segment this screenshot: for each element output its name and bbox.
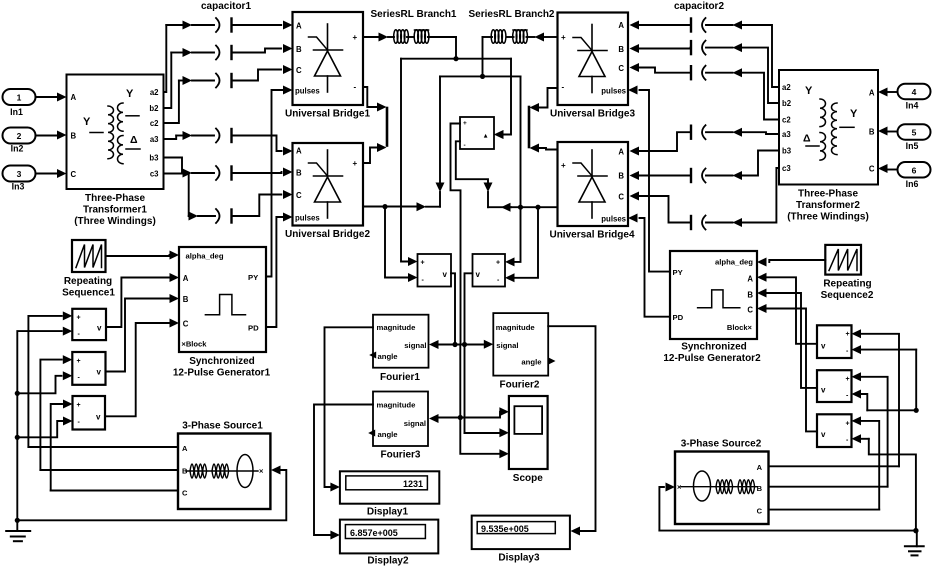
wire node to V2 minus bbox=[505, 205, 541, 283]
svg-text:C: C bbox=[183, 320, 189, 329]
capacitor C1 row c3 bbox=[189, 190, 293, 223]
wire bridge4 minus rail bbox=[488, 203, 558, 212]
label Synchronized 12-Pulse Generator2 bbox=[663, 342, 761, 365]
voltmeter Vbc1 block bbox=[72, 352, 105, 385]
svg-text:b2: b2 bbox=[782, 99, 792, 108]
svg-text:Universal Bridge3: Universal Bridge3 bbox=[550, 109, 635, 120]
wire Fourier3 magnitude out bbox=[314, 405, 373, 540]
svg-text:B: B bbox=[296, 169, 302, 178]
svg-text:In2: In2 bbox=[11, 144, 24, 154]
label Repeating Sequence1 bbox=[62, 276, 115, 299]
wire In3 to transformer C bbox=[36, 169, 67, 178]
capacitor C1 row b2 bbox=[171, 44, 292, 60]
wire In2 to transformer B bbox=[36, 131, 67, 140]
transformer T2 Three-Phase Transformer2 bbox=[779, 70, 878, 185]
wire rail left drop to V1+ bbox=[401, 59, 418, 266]
svg-text:angle: angle bbox=[378, 352, 399, 361]
wire RepSeq2 to alpha_deg bbox=[757, 258, 825, 267]
svg-text:PY: PY bbox=[673, 268, 683, 277]
svg-text:Display1: Display1 bbox=[367, 507, 409, 518]
wire Fourier2 magnitude out bbox=[548, 326, 595, 535]
wire bar bridge3-4 bbox=[528, 107, 531, 147]
svg-text:Y: Y bbox=[126, 88, 134, 100]
svg-text:b2: b2 bbox=[149, 104, 159, 113]
svg-text:In3: In3 bbox=[12, 182, 25, 192]
svg-text:B: B bbox=[747, 291, 753, 300]
wire Fourier1 magnitude out bbox=[325, 327, 374, 491]
svg-text:C: C bbox=[618, 193, 624, 202]
svg-text:Repeating: Repeating bbox=[823, 279, 871, 290]
label Fourier1 bbox=[380, 372, 420, 383]
wire bus B phase bbox=[40, 355, 178, 470]
svg-text:v: v bbox=[821, 386, 826, 395]
svg-text:SeriesRL Branch1: SeriesRL Branch1 bbox=[371, 9, 457, 20]
wire bridge2 minus to node bbox=[363, 202, 440, 211]
svg-text:+: + bbox=[463, 120, 467, 127]
label Synchronized 12-Pulse Generator1 bbox=[173, 356, 271, 379]
svg-text:Scope: Scope bbox=[513, 473, 543, 484]
op-amp U3 Universal Bridge3 bbox=[558, 13, 629, 106]
svg-text:B: B bbox=[869, 128, 875, 137]
wire bus neutral bbox=[17, 327, 72, 521]
label Display1 bbox=[367, 507, 409, 518]
svg-text:B: B bbox=[757, 484, 763, 493]
svg-text:Y: Y bbox=[850, 108, 858, 120]
wire block A out2 bbox=[456, 141, 493, 207]
op-amp U2 Universal Bridge2 bbox=[293, 143, 364, 226]
wire In6 to transformer C bbox=[878, 164, 898, 173]
svg-text:+: + bbox=[561, 161, 566, 170]
wire bus A phase bbox=[28, 311, 178, 447]
label Display2 bbox=[367, 556, 409, 567]
wire a3 riser bbox=[164, 136, 177, 140]
svg-text:C: C bbox=[757, 507, 763, 516]
wire c3 riser bbox=[164, 174, 189, 217]
svg-text:▴: ▴ bbox=[483, 133, 488, 140]
scope block bbox=[509, 396, 548, 469]
wire rail drop x520 to V2+ bbox=[505, 76, 521, 266]
wire node to V1 minus bbox=[385, 207, 418, 282]
svg-text:+: + bbox=[77, 315, 81, 322]
svg-text:+: + bbox=[846, 376, 850, 383]
wire to Fourier3 signal bbox=[429, 414, 460, 423]
svg-text:+: + bbox=[77, 358, 81, 365]
label Three-Phase Transformer1 bbox=[74, 193, 156, 227]
capacitor C2 row a3 bbox=[628, 125, 779, 155]
op-amp U4 Universal Bridge4 bbox=[558, 142, 629, 226]
svg-text:c3: c3 bbox=[782, 164, 791, 173]
wire to Scope in3 bbox=[460, 418, 509, 459]
ground G2 bbox=[905, 531, 924, 556]
source 3-Phase Source1 bbox=[178, 434, 270, 510]
wire In1 to transformer A bbox=[36, 93, 67, 102]
svg-text:c3: c3 bbox=[150, 170, 159, 179]
capacitor C2 row a2 bbox=[628, 18, 779, 87]
display block Display3 bbox=[472, 516, 570, 550]
wire bus A2 bbox=[769, 329, 900, 466]
block Fourier1 bbox=[373, 315, 429, 368]
input port In2 bbox=[3, 128, 36, 154]
source Repeating Sequence2 bbox=[825, 245, 861, 275]
wire c2 riser bbox=[164, 81, 179, 124]
voltmeter Vab2 block bbox=[817, 325, 852, 358]
svg-text:A: A bbox=[183, 274, 189, 283]
label Repeating Sequence2 bbox=[821, 279, 874, 302]
svg-text:Universal Bridge4: Universal Bridge4 bbox=[549, 230, 634, 241]
transformer T1 Three-Phase Transformer1 bbox=[67, 75, 164, 190]
svg-text:3: 3 bbox=[17, 169, 22, 179]
svg-text:PD: PD bbox=[673, 313, 684, 322]
capacitor C1 row b3 bbox=[182, 166, 293, 180]
input port In1 bbox=[3, 89, 36, 117]
voltmeter Vca2 block bbox=[817, 414, 852, 447]
svg-text:+: + bbox=[421, 260, 425, 267]
svg-text:v: v bbox=[821, 430, 826, 439]
block Fourier3 bbox=[373, 392, 428, 447]
svg-text:Sequence2: Sequence2 bbox=[821, 290, 874, 301]
wire RL1 drop and rail bbox=[401, 37, 511, 61]
wire PD2 to bridge4 pulses bbox=[628, 214, 670, 317]
wire to Scope in1 bbox=[460, 407, 509, 417]
svg-text:PD: PD bbox=[248, 324, 259, 333]
svg-text:Y: Y bbox=[83, 116, 91, 128]
wire Vca2 out to gen2 C bbox=[757, 304, 817, 431]
svg-text:2: 2 bbox=[17, 131, 22, 141]
wire RL2 drop and rail bbox=[440, 37, 521, 79]
svg-text:A: A bbox=[618, 21, 624, 30]
svg-text:B: B bbox=[618, 172, 624, 181]
voltmeter Vab1 block bbox=[72, 309, 106, 340]
svg-text:In4: In4 bbox=[906, 101, 919, 111]
svg-text:Δ: Δ bbox=[803, 133, 811, 145]
source 3-Phase Source2 bbox=[675, 452, 769, 525]
wire PY1 to bridge1 pulses bbox=[266, 86, 293, 277]
label Universal Bridge3 bbox=[550, 109, 635, 120]
svg-text:Repeating: Repeating bbox=[64, 276, 112, 287]
input port In3 bbox=[3, 166, 36, 192]
svg-text:Three-Phase: Three-Phase bbox=[85, 193, 145, 204]
svg-text:-: - bbox=[562, 83, 565, 92]
svg-text:Fourier1: Fourier1 bbox=[380, 372, 420, 383]
wire V1 output bbox=[451, 273, 458, 347]
svg-text:v: v bbox=[97, 324, 102, 333]
svg-text:B: B bbox=[296, 45, 302, 54]
svg-text:(Three Windings): (Three Windings) bbox=[74, 216, 156, 227]
svg-text:b3: b3 bbox=[782, 147, 792, 156]
svg-text:Fourier2: Fourier2 bbox=[499, 380, 539, 391]
input port In4 bbox=[898, 84, 931, 111]
label capacitor1 bbox=[201, 1, 251, 12]
wire bridge4 plus bbox=[530, 144, 558, 153]
voltmeter Vbc2 block bbox=[817, 370, 852, 402]
svg-text:+: + bbox=[77, 402, 81, 409]
label 3-Phase Source1 bbox=[182, 421, 263, 432]
wire PY2 to bridge3 pulses bbox=[628, 86, 670, 272]
svg-text:6: 6 bbox=[912, 166, 917, 176]
inductor SeriesRL Branch1 bbox=[363, 30, 456, 44]
svg-text:C: C bbox=[747, 306, 753, 315]
source Repeating Sequence1 bbox=[72, 240, 106, 272]
svg-text:3-Phase Source2: 3-Phase Source2 bbox=[681, 439, 762, 450]
svg-text:pulses: pulses bbox=[295, 87, 320, 96]
wire V2 minus tap bbox=[15, 371, 73, 396]
svg-text:A: A bbox=[296, 147, 302, 156]
svg-text:C: C bbox=[618, 64, 624, 73]
wire into block A bbox=[494, 130, 504, 139]
svg-text:pulses: pulses bbox=[601, 87, 626, 96]
svg-text:Block×: Block× bbox=[727, 323, 753, 332]
svg-text:3-Phase Source1: 3-Phase Source1 bbox=[182, 421, 263, 432]
label Universal Bridge4 bbox=[549, 230, 634, 241]
block Synchronized 12-Pulse Generator2 bbox=[670, 251, 757, 339]
wire b3 riser bbox=[164, 158, 183, 174]
svg-text:pulses: pulses bbox=[295, 214, 320, 223]
svg-text:magnitude: magnitude bbox=[377, 323, 417, 332]
label SeriesRL Branch2 bbox=[469, 9, 555, 20]
svg-text:-: - bbox=[354, 83, 357, 92]
voltmeter V2 measurement bbox=[473, 254, 506, 287]
svg-text:a3: a3 bbox=[150, 135, 159, 144]
svg-text:a3: a3 bbox=[782, 130, 791, 139]
svg-text:Δ: Δ bbox=[130, 134, 138, 146]
label Fourier3 bbox=[380, 450, 420, 461]
svg-text:A: A bbox=[618, 148, 624, 157]
svg-text:B: B bbox=[71, 132, 77, 141]
svg-text:v: v bbox=[821, 342, 826, 351]
wire ground to source1 N bbox=[15, 466, 287, 523]
svg-text:A: A bbox=[182, 444, 188, 453]
svg-text:A: A bbox=[71, 93, 77, 102]
svg-text:1231: 1231 bbox=[403, 479, 423, 489]
wire Vab2 out to gen2 A bbox=[757, 273, 817, 344]
svg-text:a2: a2 bbox=[150, 88, 159, 97]
wire Vbc2 minus tap bbox=[852, 390, 868, 411]
inductor SeriesRL Branch2 bbox=[483, 30, 558, 44]
svg-text:6.857e+005: 6.857e+005 bbox=[350, 528, 398, 538]
wire b2 riser bbox=[164, 53, 172, 109]
wire Vab1 out to gen1 A bbox=[106, 273, 179, 327]
wire block A out1 bbox=[451, 124, 461, 345]
svg-text:Y: Y bbox=[805, 85, 813, 97]
input port In5 bbox=[898, 124, 931, 151]
wire rail drop x440 bbox=[436, 76, 445, 206]
svg-text:B: B bbox=[183, 295, 189, 304]
input port In6 bbox=[898, 162, 931, 189]
svg-text:angle: angle bbox=[378, 430, 399, 439]
svg-text:Sequence1: Sequence1 bbox=[62, 288, 115, 299]
svg-text:Display2: Display2 bbox=[367, 556, 409, 567]
wire to Fourier1 signal bbox=[429, 340, 455, 349]
svg-text:C: C bbox=[182, 489, 188, 498]
svg-text:×: × bbox=[677, 483, 682, 492]
label Universal Bridge2 bbox=[285, 229, 370, 240]
label Fourier2 bbox=[499, 380, 539, 391]
ground G1 bbox=[6, 520, 30, 541]
wire bus C phase bbox=[51, 400, 178, 491]
svg-text:capacitor2: capacitor2 bbox=[674, 1, 724, 12]
svg-text:12-Pulse Generator1: 12-Pulse Generator1 bbox=[173, 368, 271, 379]
wire V2 to Scope in2 bbox=[465, 428, 509, 437]
svg-text:9.535e+005: 9.535e+005 bbox=[481, 524, 529, 534]
svg-text:A: A bbox=[757, 463, 763, 472]
wire Fourier1 angle stub bbox=[369, 352, 376, 359]
wire source2 N to ground bbox=[659, 483, 918, 534]
svg-text:Transformer1: Transformer1 bbox=[83, 205, 147, 216]
label SeriesRL Branch1 bbox=[371, 9, 457, 20]
wire In5 to transformer B bbox=[878, 127, 898, 136]
svg-text:4: 4 bbox=[912, 87, 917, 97]
label Scope bbox=[513, 473, 543, 484]
svg-text:c2: c2 bbox=[782, 116, 791, 125]
capacitor C1 row a3 bbox=[176, 129, 292, 156]
label capacitor2 bbox=[674, 1, 724, 12]
wire PD1 to bridge2 pulses bbox=[266, 213, 293, 328]
capacitor C2 row b3 bbox=[628, 151, 779, 183]
svg-text:(Three Windings): (Three Windings) bbox=[787, 212, 869, 223]
svg-text:a2: a2 bbox=[782, 83, 791, 92]
svg-text:SeriesRL Branch2: SeriesRL Branch2 bbox=[469, 9, 555, 20]
wire Fourier3 angle stub bbox=[368, 430, 375, 437]
wire bus C2 bbox=[769, 416, 880, 509]
svg-text:signal: signal bbox=[496, 341, 518, 350]
voltmeter V1 measurement bbox=[418, 254, 452, 287]
display block Display1 bbox=[340, 471, 439, 503]
svg-text:C: C bbox=[296, 66, 302, 75]
wire bridge2 plus bbox=[363, 143, 387, 163]
block Synchronized 12-Pulse Generator1 bbox=[179, 247, 266, 352]
wire Vbc2 out to gen2 B bbox=[757, 289, 817, 388]
svg-text:Synchronized: Synchronized bbox=[189, 356, 255, 367]
capacitor C2 row c3 bbox=[628, 168, 779, 230]
svg-text:+: + bbox=[353, 33, 358, 42]
label Three-Phase Transformer2 bbox=[787, 189, 869, 223]
wire RepSeq1 to alpha_deg bbox=[106, 251, 180, 260]
svg-text:v: v bbox=[476, 270, 481, 279]
svg-text:capacitor1: capacitor1 bbox=[201, 1, 251, 12]
wire rail right drop to measure A bbox=[494, 59, 511, 139]
capacitor C2 row c2 bbox=[628, 63, 779, 120]
svg-text:C: C bbox=[296, 191, 302, 200]
svg-text:Three-Phase: Three-Phase bbox=[798, 189, 858, 200]
wire In4 to transformer A bbox=[878, 88, 898, 97]
svg-text:1: 1 bbox=[17, 93, 22, 103]
wire bridge3 minus bbox=[530, 88, 558, 112]
svg-text:b3: b3 bbox=[149, 154, 159, 163]
label 3-Phase Source2 bbox=[681, 439, 762, 450]
wire bar bridge1-2 bbox=[386, 108, 389, 146]
svg-text:magnitude: magnitude bbox=[377, 401, 417, 410]
wire block A out1 lower bbox=[458, 345, 463, 421]
wire a2 riser bbox=[164, 25, 167, 92]
svg-text:Synchronized: Synchronized bbox=[681, 342, 747, 353]
wire Vbc1 out to gen1 B bbox=[106, 294, 180, 372]
svg-text:-: - bbox=[464, 142, 466, 149]
svg-text:Transformer2: Transformer2 bbox=[796, 200, 860, 211]
measurement block A bbox=[460, 117, 494, 149]
svg-text:v: v bbox=[96, 413, 101, 422]
svg-text:Universal Bridge1: Universal Bridge1 bbox=[285, 109, 370, 120]
capacitor C2 row b2 bbox=[628, 41, 779, 103]
wire Vca2 minus tap bbox=[852, 434, 919, 533]
svg-text:Universal Bridge2: Universal Bridge2 bbox=[285, 229, 370, 240]
svg-text:C: C bbox=[71, 170, 77, 179]
svg-text:In1: In1 bbox=[10, 107, 23, 117]
svg-text:c2: c2 bbox=[150, 119, 159, 128]
svg-text:+: + bbox=[561, 33, 566, 42]
op-amp U1 Universal Bridge1 bbox=[293, 12, 364, 105]
svg-text:v: v bbox=[443, 270, 448, 279]
capacitor C1 row a2 bbox=[166, 18, 292, 32]
wire Vca1 out to gen1 C bbox=[105, 319, 179, 417]
svg-text:A: A bbox=[296, 22, 302, 31]
svg-text:12-Pulse Generator2: 12-Pulse Generator2 bbox=[663, 353, 761, 364]
wire Fourier2 angle stub bbox=[549, 358, 556, 365]
wire V3 minus tap bbox=[15, 417, 73, 440]
display block Display2 bbox=[340, 520, 438, 554]
svg-text:Fourier3: Fourier3 bbox=[380, 450, 420, 461]
svg-text:A: A bbox=[869, 89, 875, 98]
svg-text:In6: In6 bbox=[906, 179, 919, 189]
svg-text:C: C bbox=[869, 165, 875, 174]
svg-text:×Block: ×Block bbox=[181, 340, 207, 349]
svg-text:angle: angle bbox=[521, 358, 542, 367]
voltmeter Vca1 block bbox=[73, 396, 106, 430]
label Display3 bbox=[498, 553, 540, 564]
svg-text:+: + bbox=[496, 260, 500, 267]
capacitor C1 row c2 bbox=[179, 65, 293, 88]
svg-text:A: A bbox=[747, 275, 753, 284]
svg-text:v: v bbox=[97, 368, 102, 377]
svg-text:In5: In5 bbox=[906, 141, 919, 151]
wire bus B2 bbox=[769, 372, 888, 486]
svg-text:signal: signal bbox=[404, 419, 426, 428]
svg-text:×: × bbox=[259, 467, 264, 476]
svg-text:Display3: Display3 bbox=[498, 553, 540, 564]
svg-text:+: + bbox=[846, 421, 850, 428]
svg-text:+: + bbox=[353, 159, 358, 168]
svg-text:alpha_deg: alpha_deg bbox=[186, 252, 224, 261]
svg-text:PY: PY bbox=[248, 273, 258, 282]
label Universal Bridge1 bbox=[285, 109, 370, 120]
wire V2 output bbox=[462, 273, 473, 433]
svg-text:pulses: pulses bbox=[601, 215, 626, 224]
svg-text:signal: signal bbox=[404, 341, 426, 350]
svg-text:alpha_deg: alpha_deg bbox=[715, 258, 753, 267]
svg-text:+: + bbox=[846, 331, 850, 338]
block Fourier2 bbox=[493, 313, 548, 376]
svg-text:B: B bbox=[618, 45, 624, 54]
svg-text:magnitude: magnitude bbox=[496, 323, 536, 332]
wire to Fourier2 signal bbox=[455, 340, 493, 349]
wire Vab2 minus tap bbox=[852, 345, 919, 413]
wire bridge1 minus bbox=[363, 87, 387, 112]
svg-text:5: 5 bbox=[912, 128, 917, 138]
